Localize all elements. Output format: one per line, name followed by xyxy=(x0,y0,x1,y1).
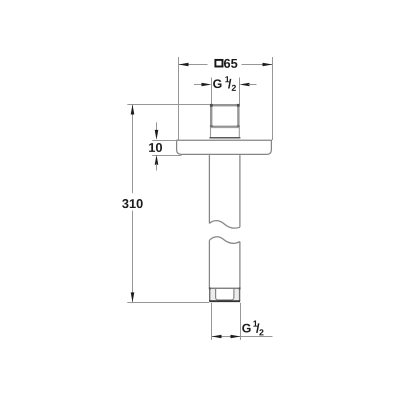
collar top line xyxy=(210,127,240,129)
dim 310 ext line bottom xyxy=(127,302,209,304)
pipe lower right edge xyxy=(239,242,241,289)
dim 310 arrow up xyxy=(131,105,135,115)
collar side right xyxy=(238,128,240,138)
dim 65 line left segment xyxy=(178,64,208,66)
dim G1/2 top tail left xyxy=(194,84,202,86)
label G 1/2 top xyxy=(213,76,236,91)
fitting outer right edge xyxy=(239,288,241,301)
dim G1/2 top tail right xyxy=(249,84,257,86)
dim 310 line lower segment xyxy=(132,211,134,303)
fitting bore left line xyxy=(215,289,217,299)
dim 65 ext line left xyxy=(178,57,180,140)
label 310 xyxy=(122,199,143,208)
dim G1/2 bottom ext line left xyxy=(211,303,213,340)
dim 310 line upper segment xyxy=(132,105,134,194)
dim 10 tail upper xyxy=(156,122,158,131)
fitting top junction dot right xyxy=(239,287,241,289)
fitting top junction dot left xyxy=(209,287,211,289)
dim 10 ext line bottom xyxy=(152,155,181,157)
nut corner dot top-right xyxy=(237,104,240,107)
square symbol xyxy=(215,60,222,67)
label 10 xyxy=(149,143,162,152)
dim G1/2 bottom leader line xyxy=(212,336,273,338)
dim 65 arrow right xyxy=(263,63,273,67)
fitting top line xyxy=(209,287,240,289)
nut corner dot bottom-right xyxy=(237,125,240,127)
pipe upper left edge xyxy=(208,155,210,223)
collar bottom line xyxy=(209,137,240,139)
collar side left xyxy=(210,128,212,138)
thread nut square xyxy=(211,105,238,127)
dim G1/2 top ext line right xyxy=(239,78,241,105)
label G 1/2 bottom xyxy=(242,321,263,336)
dim G1/2 bottom arrow right xyxy=(231,335,241,339)
fitting bore bottom xyxy=(216,298,234,300)
dim 10 arrow down xyxy=(155,130,159,140)
dim 10 ext line top xyxy=(152,140,177,142)
nut corner dot bottom-left xyxy=(210,125,213,127)
fitting side fill right xyxy=(234,288,239,300)
dim G1/2 bottom ext line right xyxy=(240,303,242,340)
dim G1/2 top ext line left xyxy=(211,78,213,105)
fitting outer left edge xyxy=(209,288,211,301)
nut corner dot top-left xyxy=(210,104,213,107)
dim G1/2 bottom arrow left xyxy=(212,335,222,339)
fitting bottom edge xyxy=(209,300,240,302)
pipe upper right edge xyxy=(239,155,241,227)
dim 65 arrow left xyxy=(179,63,189,67)
fitting side fill left xyxy=(210,288,215,300)
escutcheon plate xyxy=(177,140,272,154)
fitting bore right line xyxy=(233,289,235,299)
dim 65 line right segment xyxy=(242,64,273,66)
dim 310 ext line top xyxy=(127,104,210,106)
pipe break line upper xyxy=(209,221,240,229)
pipe lower left edge xyxy=(208,240,210,288)
pipe break line lower xyxy=(209,237,240,244)
dim G1/2 top arrow right xyxy=(240,83,250,87)
dim 65 ext line right xyxy=(272,57,274,140)
dim G1/2 top arrow left xyxy=(202,83,212,87)
dim 10 arrow up xyxy=(155,155,159,165)
label 65 xyxy=(224,59,237,68)
dim 310 arrow down xyxy=(131,292,135,302)
dim 10 tail lower xyxy=(156,164,158,171)
